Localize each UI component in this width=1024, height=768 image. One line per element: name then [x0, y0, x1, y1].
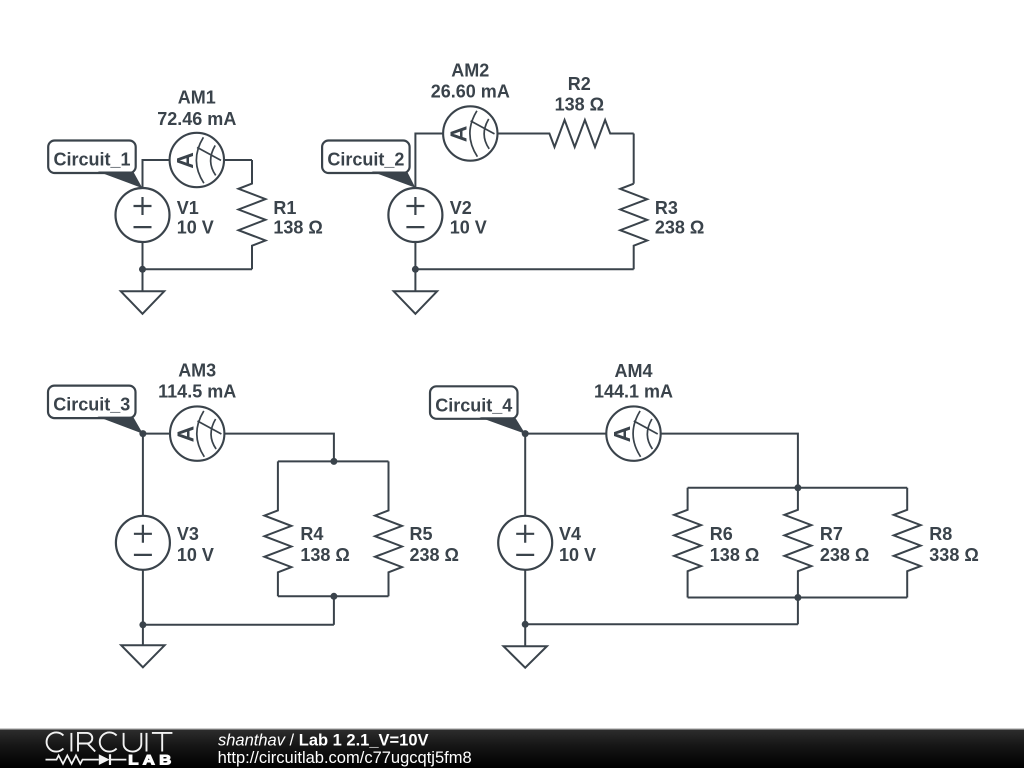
svg-text:AM3: AM3 — [178, 361, 216, 381]
svg-text:Circuit_2: Circuit_2 — [327, 150, 404, 170]
svg-text:R7: R7 — [820, 524, 843, 544]
svg-text:R5: R5 — [410, 524, 433, 544]
svg-text:Circuit_4: Circuit_4 — [435, 395, 512, 415]
svg-text:338 Ω: 338 Ω — [929, 545, 978, 565]
svg-text:138 Ω: 138 Ω — [710, 545, 759, 565]
svg-text:A: A — [446, 126, 472, 143]
svg-text:238 Ω: 238 Ω — [410, 545, 459, 565]
svg-text:Circuit_3: Circuit_3 — [53, 395, 130, 415]
svg-text:138 Ω: 138 Ω — [555, 95, 604, 115]
svg-text:10 V: 10 V — [177, 545, 214, 565]
svg-text:V3: V3 — [177, 524, 199, 544]
svg-text:138 Ω: 138 Ω — [273, 218, 322, 238]
svg-text:238 Ω: 238 Ω — [655, 218, 704, 238]
svg-text:R8: R8 — [929, 524, 952, 544]
svg-text:V4: V4 — [559, 524, 581, 544]
svg-text:R2: R2 — [568, 74, 591, 94]
svg-text:AM4: AM4 — [614, 361, 652, 381]
svg-text:26.60 mA: 26.60 mA — [431, 81, 510, 101]
svg-text:114.5 mA: 114.5 mA — [158, 382, 236, 402]
svg-text:http://circuitlab.com/c77ugcqt: http://circuitlab.com/c77ugcqtj5fm8 — [218, 749, 472, 767]
svg-text:LAB: LAB — [128, 753, 176, 768]
svg-text:R3: R3 — [655, 198, 678, 218]
svg-text:144.1 mA: 144.1 mA — [594, 381, 673, 401]
svg-text:R1: R1 — [273, 198, 296, 218]
svg-text:R4: R4 — [300, 524, 323, 544]
svg-text:A: A — [173, 426, 199, 443]
svg-text:10 V: 10 V — [450, 218, 487, 238]
svg-text:V2: V2 — [450, 198, 472, 218]
svg-text:Circuit_1: Circuit_1 — [53, 150, 130, 170]
svg-text:10 V: 10 V — [177, 218, 214, 238]
svg-text:72.46 mA: 72.46 mA — [157, 109, 236, 129]
svg-text:138 Ω: 138 Ω — [300, 545, 349, 565]
svg-text:AM1: AM1 — [178, 88, 216, 108]
svg-text:10 V: 10 V — [559, 545, 596, 565]
svg-text:AM2: AM2 — [451, 60, 489, 80]
svg-text:V1: V1 — [177, 198, 199, 218]
svg-text:A: A — [609, 426, 635, 443]
svg-text:R6: R6 — [710, 524, 733, 544]
svg-text:238 Ω: 238 Ω — [820, 545, 869, 565]
svg-text:A: A — [172, 152, 198, 169]
svg-text:shanthav / Lab 1 2.1_V=10V: shanthav / Lab 1 2.1_V=10V — [218, 732, 429, 750]
